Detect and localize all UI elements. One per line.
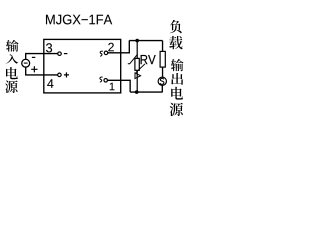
- title label MJGX-1FA: [46, 15, 112, 25]
- wire: load resistor to AC source: [162, 67, 164, 77]
- switch contact squiggle at pin 1: [100, 77, 103, 82]
- pin 4 label: [47, 79, 53, 88]
- wire: source bottom to terminal 4: [26, 67, 58, 75]
- pin 2 label: [108, 43, 114, 51]
- junction node on top rail: [135, 39, 139, 43]
- AC sine mark inside source: [160, 78, 164, 84]
- output label char shu: [171, 59, 184, 71]
- wire: top rail to varistor: [136, 41, 138, 59]
- pin 3 label: [46, 43, 52, 52]
- wire: AC source to bottom rail: [161, 85, 163, 92]
- input label char yuan: [5, 80, 18, 93]
- minus sign at pin 3: [64, 53, 68, 55]
- input label char ru: [6, 54, 18, 64]
- terminal circle pin 3: [58, 52, 62, 56]
- pin 1 label: [110, 83, 115, 91]
- terminal circle pin 4: [58, 73, 62, 77]
- output label char yuan: [170, 103, 183, 116]
- load label char fu: [170, 20, 182, 33]
- output label char chu: [171, 73, 183, 85]
- switch contact squiggle at pin 2: [100, 51, 103, 56]
- wire: pin 2 to top rail: [108, 41, 130, 53]
- terminal circle pin 2: [104, 51, 108, 55]
- output label char dian: [171, 87, 183, 100]
- DC input source BT1 (circle with minus): [22, 59, 30, 67]
- wire: pin 1 to bottom rail: [107, 80, 130, 92]
- varistor arrow triangle: [135, 73, 141, 79]
- varistor RV body: [135, 58, 139, 70]
- terminal circle pin 1: [104, 79, 108, 83]
- load label char zai: [169, 36, 182, 49]
- varistor RV diagonal stroke: [128, 54, 138, 64]
- wire: top rail to load resistor: [162, 41, 164, 52]
- input label char dian: [6, 67, 18, 79]
- bottom rail wire: [130, 91, 162, 93]
- top rail wire: [129, 40, 162, 42]
- AC output source G1 circle: [158, 77, 166, 85]
- wire: varistor to bottom rail: [136, 70, 138, 92]
- varistor lower diagonal stroke: [136, 64, 145, 73]
- junction node on bottom rail: [135, 90, 139, 94]
- label plus (input polarity): [31, 66, 37, 72]
- relay module box U1: [44, 39, 121, 93]
- plus sign at pin 4: [64, 72, 69, 77]
- label minus (input polarity): [32, 56, 35, 58]
- load resistor body: [160, 51, 165, 67]
- varistor label RV: [141, 55, 156, 64]
- wire: source top to terminal 3: [26, 54, 58, 60]
- input label char shu: [6, 40, 19, 52]
